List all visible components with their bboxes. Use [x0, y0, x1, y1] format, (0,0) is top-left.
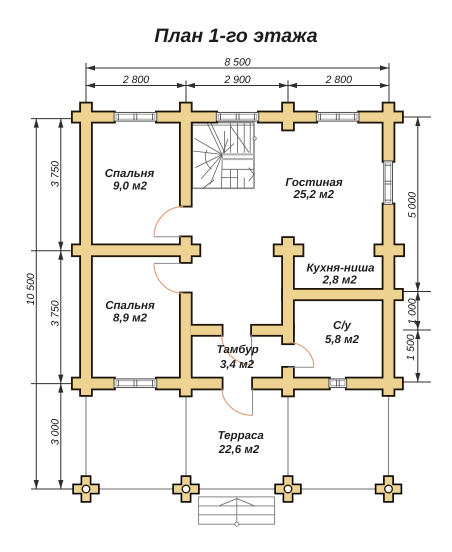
- svg-text:1 000: 1 000: [406, 298, 418, 324]
- axis2 wall fill: [73, 245, 200, 255]
- terrace post 3: [274, 475, 301, 502]
- extension tick right axis1: [403, 116, 431, 118]
- door D1 bedroom1 leaf: [154, 236, 181, 238]
- stairs landing bands: [222, 153, 254, 155]
- wall B outline: [179, 102, 193, 208]
- dimension arrowheads: [34, 65, 421, 489]
- extension line axis1 left: [31, 118, 79, 120]
- door D1 bedroom1 arc: [154, 207, 183, 237]
- walls dark outline layer: [71, 102, 405, 398]
- svg-text:3 750: 3 750: [49, 300, 61, 326]
- arrows 2800 right: [288, 83, 297, 88]
- arrows 1000: [415, 292, 420, 301]
- top wall row fill: [73, 112, 114, 121]
- top wall row outline: [71, 111, 116, 124]
- door D2 bedroom2 arc: [154, 263, 183, 293]
- bottom wall row outline: [71, 377, 116, 391]
- stairs pole circle: [253, 137, 256, 140]
- svg-text:5,8 м2: 5,8 м2: [325, 334, 360, 346]
- door D3 tambour arc: [222, 335, 252, 365]
- dim line 10500 left: [35, 119, 37, 489]
- wall C fill: [283, 104, 293, 130]
- window W1 top wall left: [114, 112, 157, 121]
- svg-text:Спальня: Спальня: [105, 168, 155, 180]
- svg-text:2 800: 2 800: [122, 74, 149, 86]
- svg-text:Кухня-ниша: Кухня-ниша: [307, 263, 376, 275]
- extension line axis4 left: [31, 488, 79, 490]
- extension line axis C top: [287, 81, 289, 103]
- tambour wall outline: [189, 324, 224, 337]
- svg-text:2,8 м2: 2,8 м2: [322, 275, 358, 287]
- extension line axis A top: [85, 63, 87, 107]
- kitchen wall fill: [283, 290, 402, 300]
- terrace post 1: [72, 475, 99, 502]
- extension tick right tambour wall: [403, 329, 431, 331]
- stairs walkline arc: [205, 150, 211, 169]
- arrows 3750 upper: [58, 119, 63, 128]
- stairs winder spokes: [195, 138, 223, 154]
- extension line axis2 left: [31, 250, 79, 252]
- svg-text:План 1-го этажа: План 1-го этажа: [154, 25, 317, 47]
- svg-text:Гостиная: Гостиная: [285, 177, 342, 189]
- arrows 8500: [86, 65, 95, 70]
- dim line 5000-1000-1500 right: [417, 117, 419, 382]
- svg-text:С/у: С/у: [333, 320, 352, 332]
- window W6 bottom wall right: [329, 379, 347, 388]
- arrows 3000: [58, 384, 63, 393]
- arrows 3750 lower: [58, 251, 63, 260]
- stairs lower flight lines: [222, 168, 254, 170]
- terrace post 2: [172, 475, 199, 502]
- wall B fill: [181, 104, 191, 206]
- svg-text:22,6 м2: 22,6 м2: [218, 444, 260, 456]
- door D4 terrace entry leaf: [252, 389, 254, 416]
- extension line axis3 left: [31, 383, 79, 385]
- terrace column line D: [388, 393, 390, 477]
- terrace post 4: [375, 475, 402, 502]
- svg-text:Терраса: Терраса: [218, 430, 265, 442]
- svg-text:3 750: 3 750: [49, 161, 61, 187]
- svg-text:Спальня: Спальня: [105, 300, 155, 312]
- extension line axis D top: [388, 63, 390, 107]
- wall D fill: [384, 104, 394, 161]
- stairs bottom-left diagonal: [203, 180, 215, 189]
- terrace edge line: [86, 488, 389, 490]
- dim line 2800-2900-2800: [86, 85, 389, 87]
- stairs upper flight verticals: [224, 131, 226, 153]
- wall A outline: [79, 102, 93, 397]
- dim line 8500: [86, 67, 389, 69]
- terrace thin outline lines: [86, 393, 389, 489]
- terrace column line A: [85, 393, 87, 477]
- stairs box: [192, 123, 256, 189]
- terrace column line B: [185, 395, 187, 477]
- svg-text:2 800: 2 800: [325, 74, 352, 86]
- dim line 3750-3750-3000 left: [60, 119, 62, 489]
- arrows 10500: [34, 119, 39, 128]
- door D4 terrace entry arc: [222, 389, 253, 416]
- dimension texts: [25, 57, 419, 446]
- wall D outline: [382, 102, 396, 163]
- dimension lines group: [31, 63, 431, 489]
- svg-text:8 500: 8 500: [224, 57, 250, 69]
- svg-text:3 000: 3 000: [49, 419, 61, 445]
- door D5 bathroom arc: [289, 343, 314, 368]
- svg-text:3,4 м2: 3,4 м2: [220, 359, 255, 371]
- arrows 2900: [186, 83, 195, 88]
- bottom wall row fill: [73, 379, 114, 389]
- wall A fill: [81, 104, 91, 396]
- room labels: [105, 168, 375, 456]
- stairs break double diagonal: [208, 124, 222, 154]
- door D2 bedroom2 leaf: [154, 262, 181, 264]
- svg-text:Тамбур: Тамбур: [217, 344, 259, 356]
- stairs direction chevron: [249, 168, 254, 182]
- arrows 5000: [415, 117, 420, 126]
- svg-text:2 900: 2 900: [223, 74, 250, 86]
- extension tick right kitchen wall: [403, 291, 431, 293]
- svg-text:1 500: 1 500: [405, 334, 417, 360]
- kitchen wall outline: [281, 288, 404, 301]
- axis2 wall outline: [71, 244, 201, 258]
- svg-text:25,2 м2: 25,2 м2: [293, 189, 335, 201]
- window W3 top wall right: [316, 112, 359, 121]
- svg-text:10 500: 10 500: [25, 273, 37, 305]
- extension tick right axis3: [403, 381, 431, 383]
- extension line axis B top: [185, 81, 187, 103]
- stairs rail diagonal: [231, 126, 250, 153]
- walls tan fill layer: [73, 104, 403, 396]
- stairs top landing edge line: [192, 124, 254, 126]
- door D3 tambour leaf: [251, 335, 253, 365]
- arrows 1500: [415, 330, 420, 339]
- window W5 bottom wall left: [114, 379, 157, 388]
- svg-text:5 000: 5 000: [406, 192, 418, 218]
- wall C outline: [281, 102, 295, 132]
- door D5 bathroom leaf: [288, 366, 314, 368]
- tambour wall fill: [191, 326, 222, 335]
- window W4 right wall: [384, 161, 393, 205]
- svg-text:8,9 м2: 8,9 м2: [113, 313, 148, 325]
- svg-text:9,0 м2: 9,0 м2: [113, 181, 148, 193]
- window W2 top wall middle: [216, 112, 258, 121]
- entrance steps symbol: [199, 497, 275, 526]
- terrace column line C: [287, 395, 289, 477]
- arrows 2800 left: [86, 83, 95, 88]
